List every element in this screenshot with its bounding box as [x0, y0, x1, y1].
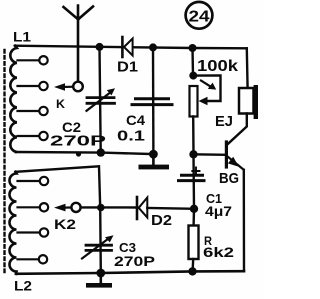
- svg-text:L2: L2: [14, 278, 32, 294]
- node base junction: [189, 150, 197, 158]
- switch K2: [54, 203, 81, 232]
- wire K2 to D2: [81, 206, 136, 209]
- svg-text:L1: L1: [13, 29, 31, 45]
- wire top rail: [15, 46, 247, 49]
- diode D1: [117, 37, 138, 76]
- node D2 junction: [190, 205, 198, 213]
- svg-text:K: K: [56, 97, 65, 111]
- svg-text:100k: 100k: [197, 58, 238, 75]
- node pot top rail: [189, 44, 197, 52]
- badge 24: [186, 2, 213, 29]
- ferrite rod: [3, 50, 5, 272]
- node C2 top: [96, 43, 104, 51]
- wire base: [194, 153, 226, 156]
- svg-text:24: 24: [189, 9, 210, 26]
- wire mid rail: [16, 152, 153, 154]
- capacitor C1: [179, 154, 233, 219]
- svg-text:EJ: EJ: [215, 113, 233, 130]
- svg-text:D1: D1: [117, 59, 138, 76]
- node C2 bottom: [97, 148, 105, 156]
- wire emitter vertical: [243, 170, 246, 271]
- diode D2: [137, 197, 194, 229]
- variable capacitor C2: [50, 47, 115, 152]
- node R bottom: [188, 267, 196, 275]
- wire L2 top: [16, 166, 101, 207]
- ground bottom: [86, 273, 112, 288]
- ground mid: [139, 154, 170, 169]
- svg-text:C4: C4: [126, 112, 145, 128]
- potentiometer 100k: [189, 48, 220, 154]
- inductor L1: [10, 29, 47, 153]
- node K2 junction: [97, 204, 105, 212]
- node mid rail blob: [76, 151, 81, 156]
- svg-text:0.1: 0.1: [117, 128, 145, 145]
- inductor L2: [10, 172, 49, 294]
- resistor R 6k2: [189, 209, 235, 272]
- wire EJ to collector: [228, 114, 247, 145]
- node C4 ground: [149, 150, 158, 159]
- switch K: [54, 82, 83, 111]
- variable capacitor C3: [82, 208, 155, 273]
- earphone EJ: [215, 85, 258, 130]
- svg-text:270P: 270P: [114, 253, 155, 269]
- node C4 top: [149, 43, 157, 51]
- node C3 bottom: [96, 269, 105, 278]
- svg-text:D2: D2: [151, 212, 172, 229]
- antenna: [64, 6, 94, 82]
- svg-text:K2: K2: [54, 216, 76, 232]
- wire bottom rail: [16, 271, 244, 274]
- svg-text:BG: BG: [219, 170, 239, 187]
- transistor BG: [219, 142, 244, 187]
- capacitor C4: [117, 47, 172, 154]
- svg-text:4μ7: 4μ7: [205, 203, 232, 219]
- svg-text:270P: 270P: [50, 133, 106, 150]
- wire right top vertical: [246, 48, 249, 88]
- svg-text:6k2: 6k2: [203, 244, 234, 260]
